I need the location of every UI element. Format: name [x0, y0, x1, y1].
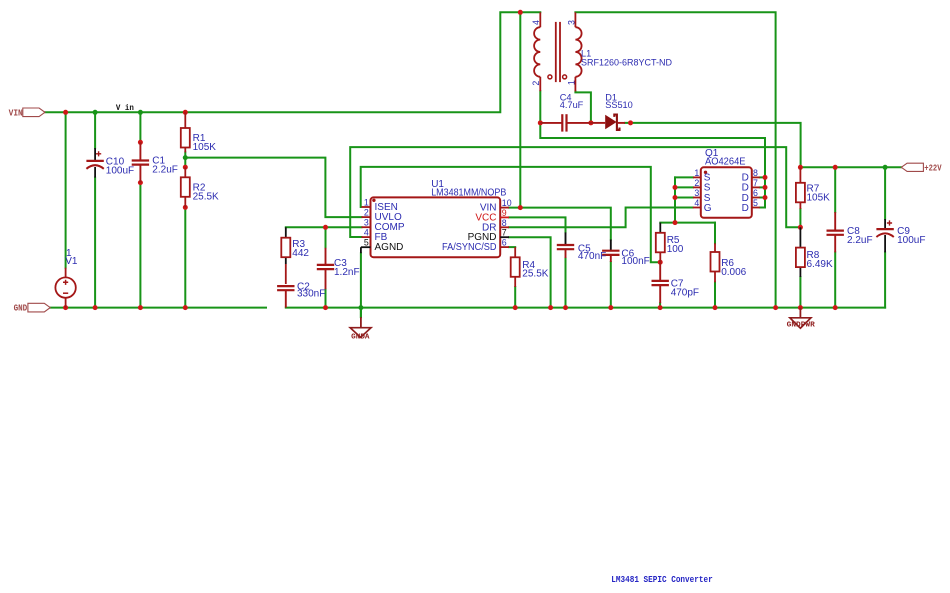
svg-text:4: 4: [531, 20, 541, 25]
label C9 value: [897, 226, 925, 246]
wire C5 bottom: [565, 258, 567, 308]
wire FB net: [350, 147, 800, 237]
svg-text:2.2uF: 2.2uF: [152, 165, 178, 176]
svg-text:1: 1: [566, 80, 576, 85]
junction PGND at GND: [548, 305, 553, 310]
label L1 value: [581, 49, 672, 69]
junction Q1 pin3: [673, 195, 678, 200]
ground GNDPWR: [787, 308, 816, 330]
resistor R2: [181, 167, 190, 207]
svg-text:3: 3: [566, 20, 576, 25]
wire UVLO net: [185, 158, 361, 218]
svg-text:2: 2: [364, 208, 369, 218]
junction R1 R2 divider: [183, 155, 188, 160]
wire C9 top: [884, 167, 886, 219]
junction source bus bottom: [673, 220, 678, 225]
svg-text:2.2uF: 2.2uF: [847, 235, 873, 246]
port +22V: [901, 163, 942, 174]
junction L1 return at GND: [773, 305, 778, 310]
capacitor C1: [132, 142, 149, 182]
capacitor C3: [317, 248, 334, 289]
label D1 value: [605, 93, 633, 110]
label R3 value: [292, 239, 309, 259]
label R6 value: [721, 258, 746, 278]
svg-text:0.006: 0.006: [721, 267, 746, 278]
junction C6 at GND: [608, 305, 613, 310]
wire C9 bottom: [884, 252, 886, 307]
junction R6 at GND: [713, 305, 718, 310]
junction C9 at +22V rail: [883, 165, 888, 170]
wire FA/SYNC/SD to R4: [509, 246, 515, 248]
junction C4 left: [538, 120, 543, 125]
wire GNDA drop: [360, 308, 362, 318]
pin names U1 left: [375, 202, 405, 253]
wire Q1 pin3 link: [675, 197, 693, 199]
junction C1 top pin: [138, 140, 143, 145]
wire VIN drop to U1 pin10: [519, 12, 521, 207]
junction C8 top: [833, 165, 838, 170]
label C5 value: [578, 243, 606, 262]
wire ISEN net: [361, 167, 661, 262]
resistor R3: [281, 227, 290, 284]
wire DR net to Q1 gate: [509, 208, 693, 228]
wire C8 bottom: [834, 252, 836, 307]
label R8 value: [807, 250, 833, 270]
junction R2 top pin: [183, 165, 188, 170]
voltage source V1: [55, 268, 75, 308]
capacitor C9 polarized: [876, 219, 893, 252]
svg-text:7: 7: [502, 228, 507, 238]
wire R2 bottom to GND: [184, 207, 186, 307]
capacitor C2: [277, 286, 294, 308]
svg-text:10: 10: [502, 198, 512, 208]
wire GND rail left: [50, 307, 266, 309]
svg-text:3: 3: [364, 218, 369, 228]
resistor R5: [656, 223, 665, 263]
svg-text:D: D: [742, 203, 749, 214]
pin numbers Q1 left: [694, 168, 699, 208]
label C3 value: [334, 258, 360, 278]
junction C5 at GND: [563, 305, 568, 310]
capacitor C5: [557, 232, 574, 258]
wire R6 bottom: [714, 282, 716, 307]
label C8 value: [847, 226, 873, 246]
svg-text:4: 4: [694, 198, 699, 208]
svg-text:25.5K: 25.5K: [522, 268, 548, 279]
resistor R7: [796, 167, 805, 209]
resistor R8: [796, 227, 805, 277]
junction top rail: [518, 10, 523, 15]
junction R2 at GND: [183, 305, 188, 310]
pin numbers L1 rotated: [531, 20, 576, 86]
junction Q1 pin2: [673, 185, 678, 190]
wire PGND drop: [509, 237, 551, 307]
wire Q1 pin1 link: [675, 176, 693, 178]
svg-text:5: 5: [364, 238, 369, 248]
wire Q1 pin8 link: [760, 176, 765, 178]
svg-text:100uF: 100uF: [106, 165, 134, 176]
svg-text:1: 1: [694, 168, 699, 178]
port GND: [14, 303, 51, 314]
svg-text:9: 9: [502, 208, 507, 218]
wire C7 bottom: [659, 303, 661, 307]
svg-text:1: 1: [364, 198, 369, 208]
wire VIN rail: [45, 12, 540, 112]
junction C1 at VIN rail: [138, 110, 143, 115]
junction FB R7 R8: [798, 225, 803, 230]
svg-text:GNDA: GNDA: [351, 334, 370, 342]
junction R7 top: [798, 165, 803, 170]
svg-text:AGND: AGND: [375, 242, 404, 253]
svg-text:4: 4: [364, 228, 369, 238]
svg-text:330nF: 330nF: [297, 288, 325, 299]
svg-text:V in: V in: [116, 105, 134, 113]
svg-text:G: G: [704, 203, 712, 214]
wire C1 top: [139, 112, 141, 142]
ground GNDA: [350, 317, 371, 342]
transistor Q1 AO4264E box: [693, 167, 760, 218]
wire +22V rail: [800, 166, 901, 168]
wire R1-R2 link: [184, 152, 186, 167]
capacitor C6: [602, 240, 619, 263]
pin names Q1: [704, 173, 712, 214]
wire Q1 pin2 link: [675, 186, 693, 188]
junction D1 cathode: [628, 120, 633, 125]
pin numbers Q1 right: [753, 168, 758, 208]
svg-text:VIN: VIN: [9, 107, 23, 118]
wire SW node to Q1 drains: [540, 123, 765, 208]
svg-text:LM3481MM/NOPB: LM3481MM/NOPB: [431, 188, 506, 199]
junction R2 bottom pin: [183, 205, 188, 210]
wire R8 bottom: [799, 277, 801, 308]
junction Q1 pin7: [763, 185, 768, 190]
label U1 value: [431, 179, 506, 199]
wire R5-R6 sense node: [660, 222, 715, 224]
wire COMP net: [286, 226, 362, 228]
wire L1 pin2 to C4: [539, 91, 541, 123]
pin names U1 right: [442, 203, 497, 254]
label C6 value: [621, 248, 649, 267]
junction AGND at GND rail: [358, 305, 363, 310]
svg-text:105K: 105K: [807, 193, 831, 204]
junction C4 right D1 anode: [588, 120, 593, 125]
wire V1 plus to VIN rail: [65, 112, 67, 267]
capacitor C7: [652, 262, 669, 303]
label C2 value: [297, 281, 325, 299]
wire AGND drop: [360, 253, 362, 317]
wire GND rail right: [286, 307, 885, 309]
label R7 value: [807, 184, 831, 204]
junction R1 top: [183, 110, 188, 115]
label C10 value: [106, 156, 134, 176]
junction Q1 pin6: [763, 195, 768, 200]
resistor R4: [511, 247, 520, 287]
label R5 value: [667, 235, 684, 255]
label R4 value: [522, 260, 548, 279]
junction R8 at GND: [798, 305, 803, 310]
svg-text:1.2nF: 1.2nF: [334, 267, 360, 278]
junction U1 pin10: [518, 205, 523, 210]
wire C1 bottom to GND: [139, 183, 141, 308]
wire C3 bottom: [325, 289, 327, 307]
svg-text:2: 2: [531, 81, 541, 86]
svg-text:100: 100: [667, 244, 684, 255]
wire C3 top: [325, 227, 327, 248]
svg-text:470pF: 470pF: [671, 287, 699, 298]
svg-text:470nF: 470nF: [578, 251, 606, 262]
wire C8 top: [834, 167, 836, 212]
junction Q1 pin8: [763, 175, 768, 180]
svg-text:5: 5: [753, 198, 758, 208]
svg-text:4.7uF: 4.7uF: [560, 100, 584, 110]
wire Q1 source bus: [674, 177, 676, 222]
svg-text:105K: 105K: [193, 142, 217, 153]
svg-text:7: 7: [753, 178, 758, 188]
wire Q1 pin6 link: [760, 197, 765, 199]
label C7 value: [671, 278, 699, 298]
junction ISEN R5 C7: [658, 260, 663, 265]
label C4 value: [560, 93, 584, 110]
junction C3 at GND: [323, 305, 328, 310]
wire R6 top: [714, 223, 716, 244]
svg-text:8: 8: [753, 168, 758, 178]
label Q1 value: [705, 148, 746, 167]
junction C8 at GND: [833, 305, 838, 310]
svg-text:SRF1260-6R8YCT-ND: SRF1260-6R8YCT-ND: [581, 57, 672, 68]
svg-text:3: 3: [694, 188, 699, 198]
junction V1 at VIN rail: [63, 110, 68, 115]
svg-text:6.49K: 6.49K: [807, 259, 833, 270]
junction V1 at GND: [63, 305, 68, 310]
svg-text:+22V: +22V: [924, 163, 942, 174]
svg-text:AO4264E: AO4264E: [705, 156, 746, 167]
wire R7 bottom: [799, 209, 801, 227]
wire L1 pin1 to C4 right: [575, 91, 591, 123]
svg-text:100nF: 100nF: [621, 256, 649, 267]
svg-text:8: 8: [502, 218, 507, 228]
svg-text:LM3481 SEPIC Converter: LM3481 SEPIC Converter: [611, 574, 712, 585]
junction COMP C3: [323, 225, 328, 230]
junction C10 at GND: [93, 305, 98, 310]
transformer L1: [534, 12, 582, 91]
wire VCC pin9 to C5: [509, 217, 566, 232]
resistor R1: [181, 112, 190, 152]
wire R4 bottom: [514, 287, 516, 308]
junction C7 at GND: [658, 305, 663, 310]
diode D1 SS510: [591, 115, 625, 130]
svg-text:FA/SYNC/SD: FA/SYNC/SD: [442, 242, 497, 253]
label C1 value: [152, 156, 178, 176]
resistor R6: [711, 243, 720, 282]
label V1: [65, 248, 78, 267]
op-amp U1 LM3481 box: [361, 197, 509, 257]
svg-text:SS510: SS510: [605, 100, 633, 110]
junction C10 at VIN rail: [93, 110, 98, 115]
svg-text:442: 442: [292, 248, 309, 259]
wire C6 bottom: [610, 262, 612, 308]
capacitor C4: [540, 114, 591, 131]
pin numbers U1 left: [364, 198, 369, 248]
svg-text:6: 6: [753, 188, 758, 198]
capacitor C8: [827, 212, 844, 252]
port VIN: [9, 107, 45, 118]
label R1 value: [193, 133, 217, 153]
junction R4 at GND: [513, 305, 518, 310]
capacitor C10 polarized: [86, 148, 103, 178]
wire Q1 pin7 link: [760, 186, 765, 188]
junction C1 at GND: [138, 305, 143, 310]
wire C10 bottom to GND: [94, 178, 96, 308]
svg-text:100uF: 100uF: [897, 235, 925, 246]
svg-text:GND: GND: [14, 303, 28, 314]
svg-text:V1: V1: [65, 256, 78, 267]
label R2 value: [193, 182, 219, 202]
junction C1 bottom pin: [138, 180, 143, 185]
svg-text:2: 2: [694, 178, 699, 188]
wire C10 top: [94, 112, 96, 148]
wire L1 pin3 top to GND drop: [575, 12, 775, 307]
wire VIN pin10 to C6: [509, 208, 611, 240]
pin numbers U1 right: [502, 198, 512, 248]
svg-text:6: 6: [502, 238, 507, 248]
wire D1 cathode to output: [625, 123, 801, 167]
svg-text:GNDPWR: GNDPWR: [787, 321, 816, 329]
svg-text:25.5K: 25.5K: [193, 191, 219, 202]
